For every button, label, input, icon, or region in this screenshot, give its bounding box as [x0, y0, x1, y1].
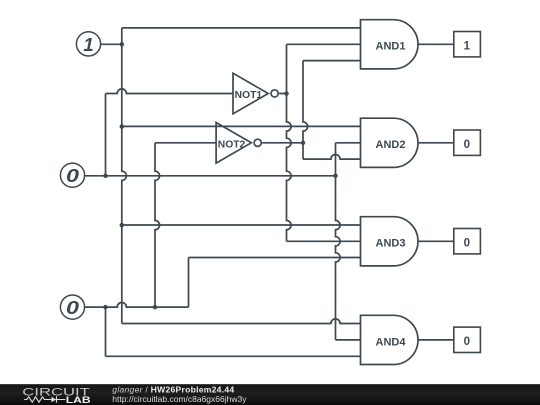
svg-text:AND2: AND2	[376, 139, 406, 151]
svg-text:0: 0	[464, 238, 470, 250]
svg-text:NOT2: NOT2	[218, 139, 246, 150]
svg-text:0: 0	[464, 139, 470, 151]
svg-text:0: 0	[464, 336, 470, 348]
svg-text:LAB: LAB	[66, 395, 91, 405]
svg-text:NOT1: NOT1	[235, 90, 263, 101]
svg-text:AND4: AND4	[376, 336, 407, 348]
svg-text:0: 0	[66, 297, 80, 318]
svg-text:AND1: AND1	[376, 41, 406, 53]
svg-text:http://circuitlab.com/c8a6gx66: http://circuitlab.com/c8a6gx66jhw3y	[112, 394, 247, 404]
svg-text:1: 1	[464, 41, 471, 53]
svg-text:AND3: AND3	[376, 238, 406, 250]
svg-text:1: 1	[83, 34, 93, 55]
svg-text:0: 0	[66, 165, 80, 186]
svg-text:glanger / HW26Problem24.44: glanger / HW26Problem24.44	[112, 384, 234, 394]
